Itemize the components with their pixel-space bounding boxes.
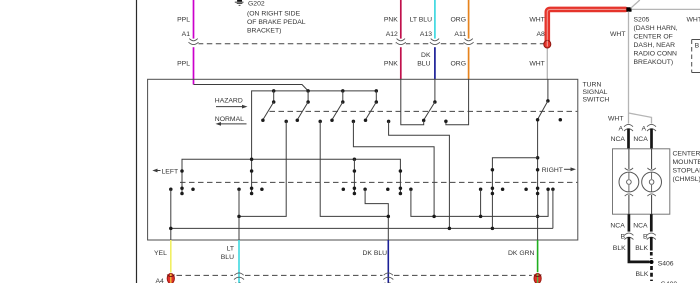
node connector dashed line bottom: [177, 274, 532, 276]
component fragment right edge: [692, 40, 700, 73]
svg-text:PNK: PNK: [384, 60, 398, 67]
wire BLK left elbow to S406: [629, 237, 650, 262]
node hazard contact 4 wire: [387, 120, 450, 229]
svg-text:WHT: WHT: [529, 16, 544, 23]
node contact G3 right wired: [363, 188, 390, 240]
node hazard contact 3 wire: [352, 120, 434, 217]
svg-text:LEFT: LEFT: [162, 168, 179, 175]
connector LT BLU bottom: [234, 272, 245, 283]
svg-text:A11: A11: [454, 31, 466, 38]
svg-text:BLK: BLK: [636, 271, 649, 278]
label NORMAL with arrow: [215, 116, 247, 126]
connector A8 highlighted: [544, 40, 551, 48]
wire WHT split to lamps: [629, 113, 652, 124]
svg-text:RIGHT: RIGHT: [542, 167, 563, 174]
wire feed to right blade G5: [492, 158, 537, 170]
node contact right of WHT blade: [559, 118, 563, 122]
svg-text:A13: A13: [420, 31, 432, 38]
svg-text:BREAKOUT): BREAKOUT): [634, 59, 674, 66]
svg-text:(ON RIGHT SIDE: (ON RIGHT SIDE: [247, 10, 301, 17]
switch hazard blade 4: [364, 91, 378, 122]
connector A12: [396, 39, 406, 48]
splice S406: [650, 260, 654, 264]
wire LT BLU upper: [434, 0, 436, 41]
svg-text:B: B: [695, 43, 700, 50]
node contact G6 left: [524, 188, 528, 192]
svg-text:YEL: YEL: [154, 250, 167, 257]
svg-text:BLU: BLU: [221, 254, 234, 261]
svg-text:G202: G202: [248, 0, 265, 7]
switch blade G5 column: [491, 168, 495, 228]
wire PNK upper: [400, 0, 402, 41]
svg-text:RADIO CONN: RADIO CONN: [634, 50, 678, 57]
svg-text:A: A: [641, 125, 646, 132]
wire BLK right to S406: [650, 237, 653, 251]
node H2 junction on green chain: [536, 215, 540, 219]
svg-text:(CHMSL): (CHMSL): [673, 176, 700, 183]
svg-text:B: B: [621, 234, 626, 241]
svg-text:A: A: [618, 125, 623, 132]
svg-text:CENTER OF: CENTER OF: [634, 33, 673, 40]
label turn signal switch: [583, 82, 610, 104]
switch hazard blade 1: [261, 91, 275, 122]
node contact G2 right: [260, 188, 264, 192]
wire LT BLU bottom: [238, 240, 240, 272]
splice S205: [626, 7, 631, 12]
svg-text:WHT: WHT: [608, 115, 623, 122]
node contact G2 left wired to LT BLU: [237, 188, 241, 240]
ground G202: [235, 0, 306, 34]
turn signal switch box: [148, 79, 578, 240]
wire BLK below box left: [628, 214, 631, 231]
switch blade G1 column: [180, 169, 184, 195]
svg-text:STOPLAMP: STOPLAMP: [673, 167, 700, 174]
node bottom bus dots: [169, 227, 173, 231]
wire hazard bus: [252, 91, 377, 171]
lamp bulb right: [642, 149, 662, 214]
connector A11: [464, 39, 474, 48]
wire BLK dashed below S406: [650, 266, 653, 281]
switch blade G2 column: [250, 169, 254, 195]
node contact G3 left: [342, 188, 346, 192]
svg-text:NCA: NCA: [610, 223, 625, 230]
svg-text:DASH, NEAR: DASH, NEAR: [634, 42, 676, 49]
node pivot G6: [536, 168, 540, 172]
wire green chain vertical: [537, 120, 539, 240]
wire page border left: [136, 0, 138, 283]
node contact G4 left: [386, 188, 390, 192]
node hazard contact 2 wire to DK BLU column: [318, 120, 388, 217]
connector A left lamp: [618, 124, 633, 132]
node contact far right wired to bus1: [551, 188, 555, 229]
wire PPL lower: [193, 47, 195, 85]
wire YEL: [170, 240, 172, 273]
node contact G1 right: [191, 188, 195, 192]
wire PPL upper: [193, 0, 195, 41]
label CHMSL: [673, 151, 700, 183]
switch blade G3 column: [353, 159, 357, 195]
label HAZARD with arrow: [215, 98, 248, 109]
lamp box CHMSL: [613, 149, 670, 214]
switch hazard blade 2: [296, 91, 310, 122]
node hazard bus dots: [272, 89, 276, 93]
label S205 block: [634, 16, 678, 66]
svg-text:BLU: BLU: [417, 60, 430, 67]
svg-text:BLK: BLK: [635, 245, 648, 252]
svg-text:PPL: PPL: [177, 16, 190, 23]
wire PPL feed inside switch: [194, 85, 309, 91]
svg-text:SWITCH: SWITCH: [583, 97, 610, 104]
svg-text:BRACKET): BRACKET): [247, 27, 281, 34]
label LEFT with arrow: [152, 168, 178, 175]
connector A4 highlighted: [167, 274, 174, 283]
svg-text:NCA: NCA: [611, 136, 626, 143]
wire WHT below connector A8: [546, 47, 548, 79]
svg-text:A1: A1: [182, 31, 191, 38]
wire DK BLU bottom: [387, 240, 389, 272]
svg-text:NORMAL: NORMAL: [215, 116, 244, 123]
svg-text:DK GRN: DK GRN: [508, 250, 535, 257]
svg-text:LT: LT: [227, 245, 234, 252]
svg-text:BLK: BLK: [613, 245, 626, 252]
wire ORG upper: [468, 0, 470, 41]
svg-text:A8: A8: [536, 31, 545, 38]
svg-text:SIGNAL: SIGNAL: [583, 89, 608, 96]
svg-text:PPL: PPL: [177, 60, 190, 67]
switch hazard blade 3: [330, 91, 344, 122]
svg-text:(DASH HARN,: (DASH HARN,: [634, 25, 678, 32]
svg-text:PNK: PNK: [384, 16, 398, 23]
svg-text:LT BLU: LT BLU: [410, 16, 433, 23]
connector A13: [430, 39, 440, 48]
wire PNK inside to contact: [401, 79, 424, 125]
label RIGHT with arrow: [542, 167, 576, 174]
switch blade DK BLU: [422, 79, 437, 122]
svg-text:S406: S406: [658, 260, 674, 267]
wire BLK stub right into lamp box: [650, 129, 653, 149]
wire ORG inside to contact: [444, 79, 468, 125]
wire bottom bus: [171, 227, 553, 229]
node contact G6 right: [546, 188, 550, 192]
dashed travel line lower: [180, 181, 577, 183]
svg-text:ORG: ORG: [451, 60, 466, 67]
switch blade WHT: [538, 79, 550, 119]
node LEFT bus dots: [250, 157, 254, 161]
svg-text:MOUNTED: MOUNTED: [673, 159, 700, 166]
wire DK GRN: [537, 240, 539, 272]
wire DK BLU below connector: [434, 47, 436, 79]
connector B left: [621, 233, 634, 241]
node contact G4 right wired: [409, 188, 548, 217]
svg-text:OF BRAKE PEDAL: OF BRAKE PEDAL: [247, 19, 306, 26]
node junction feed G5: [536, 156, 540, 160]
svg-text:DK BLU: DK BLU: [363, 250, 388, 257]
connector DK BLU bottom: [383, 272, 394, 283]
wire WHT from S205 down: [628, 12, 630, 114]
svg-text:CENTER: CENTER: [673, 151, 700, 158]
wire WHT right from S205: [632, 8, 700, 10]
wire PNK lower: [400, 47, 402, 79]
svg-text:HAZARD: HAZARD: [215, 98, 243, 105]
svg-text:B: B: [643, 234, 648, 241]
node contact G1 left wired to YEL: [169, 188, 173, 240]
node connector dashed line C100 top: [198, 43, 544, 45]
wire BLK below box right: [650, 214, 653, 231]
switch blade G4 column: [399, 169, 403, 195]
wire BLK stub left into lamp box: [627, 129, 630, 149]
node hazard contact 1 wire to LT BLU column: [239, 120, 288, 217]
svg-text:A12: A12: [386, 31, 398, 38]
wire WHT diagonal from S205 to top: [631, 0, 640, 8]
wire ORG lower: [468, 47, 470, 79]
switch blade G6 contact dots: [536, 186, 540, 190]
connector B right: [643, 233, 656, 241]
node contact G5 right: [501, 188, 505, 192]
svg-text:A4: A4: [156, 278, 165, 283]
node contact G5 left wired: [432, 188, 482, 219]
connector A1: [189, 39, 199, 48]
wire LEFT bus: [182, 159, 400, 171]
wire WHT highlighted red to S205: [547, 9, 625, 44]
svg-text:NCA: NCA: [633, 136, 648, 143]
lamp bulb left: [619, 149, 639, 214]
svg-text:WHT: WHT: [687, 16, 700, 23]
svg-text:WHT: WHT: [610, 31, 625, 38]
svg-text:ORG: ORG: [451, 16, 466, 23]
svg-text:NCA: NCA: [633, 223, 648, 230]
node blade end WHT: [536, 118, 540, 122]
connector DK GRN highlighted: [534, 274, 541, 283]
connector A right lamp: [641, 124, 656, 132]
dashed travel line upper: [270, 110, 578, 112]
svg-text:TURN: TURN: [583, 82, 602, 89]
svg-text:S205: S205: [634, 16, 650, 23]
svg-text:WHT: WHT: [529, 61, 544, 68]
svg-text:DK: DK: [421, 52, 431, 59]
